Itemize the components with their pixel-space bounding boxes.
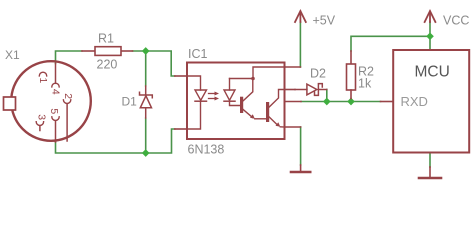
svg-text:2: 2: [62, 93, 73, 99]
svg-text:D2: D2: [310, 67, 326, 81]
junction at VCC / MCU: [426, 32, 434, 40]
MCU RXD pin: [381, 101, 394, 103]
IC1 pin 7 vb: [285, 101, 302, 103]
X1 pin 5 lead: [55, 121, 57, 142]
zener diode D1 cathode bar: [140, 92, 153, 98]
zener diode D1 triangle: [140, 96, 151, 108]
X1 pin 3 contact arc: [36, 122, 43, 126]
wire from X1 pin 4 up to R1: [56, 51, 83, 64]
svg-text:R1: R1: [98, 32, 114, 46]
X1 pin 4 contact arc: [52, 83, 59, 87]
MCU box: [393, 50, 469, 153]
transistor Q1 base bar: [240, 97, 243, 113]
IC1 photodiode to Q1 base wire: [230, 101, 241, 105]
svg-text:RXD: RXD: [401, 94, 428, 109]
svg-text:1k: 1k: [358, 77, 372, 91]
wire D2 cathode drop: [326, 90, 328, 102]
schottky diode D2 cathode bar with hooks: [315, 84, 323, 96]
IC1 photodiode top wire: [229, 79, 231, 91]
IC1 light arrow 1: [209, 93, 217, 95]
IC1 pin 2 anode: [175, 75, 187, 77]
junction at D2 cathode / RXD: [323, 98, 331, 106]
IC1 internal LED triangle: [195, 90, 207, 100]
VCC supply arrow: [425, 11, 436, 22]
ground symbol near IC1: [300, 165, 302, 171]
wire D1 top branch: [145, 51, 147, 86]
IC1 internal LED anode wire: [187, 76, 201, 90]
connector X1 notch square: [4, 97, 16, 110]
svg-text:X1: X1: [5, 48, 20, 62]
resistor R2 top lead: [350, 51, 352, 64]
connector X1 body circle: [11, 61, 91, 141]
X1 pin 3 lead stub: [39, 126, 41, 131]
IC1 pin 6 output: [285, 89, 296, 91]
wire R2 bottom to RXD net: [350, 99, 352, 102]
wire MCU gnd pin down: [429, 153, 431, 168]
wire VCC stem to MCU top: [429, 22, 431, 50]
ground symbol under MCU: [429, 167, 431, 177]
svg-text:D1: D1: [122, 95, 138, 109]
wire from X1 pin 5 down and along bottom to IC1 cathode pin: [56, 129, 175, 153]
IC1 rail to pin 8: [253, 67, 285, 79]
transistor Q2 collector: [269, 90, 284, 108]
X1 pin 5 contact arc: [52, 117, 59, 121]
wire D1 bottom branch: [145, 118, 147, 153]
svg-text:5: 5: [48, 108, 59, 114]
transistor Q1 emitter: [243, 110, 252, 118]
wire IC1 pin 5 to ground: [300, 127, 302, 165]
IC1 internal LED cathode bar: [195, 100, 207, 102]
wire RXD net to MCU: [301, 101, 381, 103]
IC1 photodiode bar: [224, 100, 235, 102]
schottky diode D2 triangle: [307, 84, 317, 95]
zener diode D1 top lead: [145, 86, 147, 95]
svg-text:IC1: IC1: [188, 47, 208, 61]
IC1 light arrow 2: [209, 98, 217, 100]
X1 pin 4 lead: [55, 64, 57, 84]
transistor Q2 emitter: [269, 117, 277, 125]
svg-text:220: 220: [97, 58, 118, 72]
svg-text:3: 3: [35, 114, 46, 120]
svg-text:VCC: VCC: [443, 14, 469, 28]
svg-text:1: 1: [37, 78, 48, 84]
IC1 pin 5 gnd: [285, 126, 301, 128]
+5V supply arrow: [295, 11, 306, 22]
schottky diode D2 anode lead: [295, 89, 307, 91]
wire VCC to R2 top: [351, 36, 430, 51]
transistor Q2 base bar: [266, 102, 269, 122]
wire +5V stem to IC1 pin 8: [299, 22, 301, 67]
IC1 internal LED cathode wire: [187, 101, 201, 129]
svg-text:6N138: 6N138: [188, 143, 225, 157]
resistor R2 bottom lead: [350, 90, 352, 99]
IC1 photodiode triangle: [224, 90, 235, 100]
zener diode D1 bottom lead: [145, 108, 147, 118]
transistor Q1 collector: [243, 79, 253, 101]
IC1 pin 8 vcc: [285, 66, 301, 68]
schottky diode D2 cathode lead: [318, 89, 326, 91]
IC1 pin 3 cathode: [175, 128, 187, 130]
junction at D1 bottom: [142, 149, 150, 157]
svg-text:4: 4: [50, 89, 61, 95]
wire from R1 right to corner and down to IC1 anode pin: [133, 51, 175, 76]
svg-text:MCU: MCU: [415, 64, 450, 81]
X1 pin 2 lead: [66, 104, 68, 141]
X1 pin 1 contact arc: [39, 72, 46, 76]
IC1 internal vcc rail: [230, 78, 254, 80]
resistor R1 body: [95, 47, 121, 56]
resistor R1 leads: [82, 50, 95, 52]
junction at R1/D1 top: [142, 47, 150, 55]
IC1 rail junction dot: [251, 77, 255, 81]
op-amp IC1 box: [187, 63, 285, 140]
X1 pin 2 contact arc: [63, 100, 70, 104]
Q1 emitter to Q2 base wire: [255, 118, 266, 120]
junction at R2 bottom / RXD: [347, 98, 355, 106]
resistor R2 body: [347, 64, 356, 90]
svg-text:+5V: +5V: [313, 14, 336, 28]
